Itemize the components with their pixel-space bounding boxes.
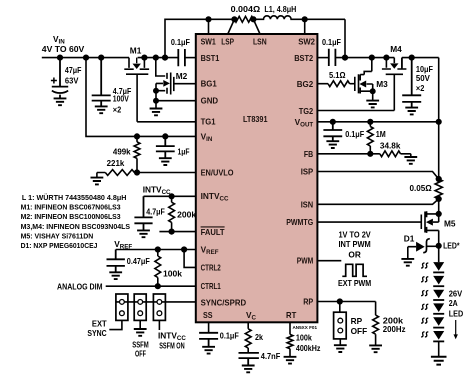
node 10uF junction dot (409, 55, 414, 60)
svg-text:50V: 50V (416, 73, 430, 83)
svg-text:0.1μF: 0.1μF (345, 129, 364, 139)
svg-text:M4: M4 (390, 44, 402, 54)
wire RP pin row (317, 301, 375, 303)
svg-text:LED*: LED* (443, 240, 460, 250)
node FB junction dot (368, 152, 373, 157)
capacitor C11 0.1uF VOUT (323, 122, 342, 141)
svg-text:OR: OR (348, 249, 360, 259)
node 200k top junction dot (169, 194, 174, 199)
ground for C2 (95, 106, 108, 113)
ground for SSFM OFF box (139, 320, 141, 329)
resistor R9 34.8k (380, 151, 411, 157)
resistor R6 100k 400kHz (287, 334, 293, 356)
wire RT pin stub (289, 322, 291, 334)
svg-text:BST1: BST1 (201, 53, 220, 63)
svg-text:D1: D1 (404, 234, 415, 244)
wire VIN column down to VIN pin row (86, 58, 196, 137)
IC U1 LT8391 body (196, 34, 318, 322)
node 0.05 bottom junction dot (436, 197, 441, 202)
node LSP junction dot (232, 17, 237, 22)
node 499k top junction dot (135, 134, 140, 139)
transistor M2 nmos bottom switch 1 (156, 58, 174, 109)
resistor R5 2k (245, 329, 251, 353)
svg-text:CTRL2: CTRL2 (201, 262, 221, 272)
wire PWMTG pin to M5 gate (317, 221, 421, 223)
svg-text:0.1μF: 0.1μF (322, 37, 341, 47)
svg-text:63V: 63V (65, 75, 79, 85)
ground for C11 (326, 141, 339, 148)
svg-text:SW2: SW2 (298, 37, 315, 47)
node VIN cap C1 junction dot (58, 55, 63, 60)
svg-text:0.004Ω: 0.004Ω (231, 4, 261, 14)
switch SW jumper EXT SYNC box (116, 294, 128, 320)
node M5 drain junction dot (436, 212, 441, 217)
wire VC pin stub (247, 322, 249, 329)
svg-text:LED: LED (449, 308, 464, 318)
node LSN junction dot (251, 17, 256, 22)
svg-text:0.47μF: 0.47μF (127, 256, 150, 266)
svg-text:LSN: LSN (253, 37, 267, 47)
node M1 drain junction dot (142, 55, 147, 60)
svg-text:RP: RP (351, 316, 363, 326)
svg-text:400kHz: 400kHz (296, 343, 321, 353)
svg-text:1M: 1M (376, 129, 386, 139)
svg-text:GND: GND (201, 96, 219, 106)
svg-text:0.1μF: 0.1μF (220, 331, 239, 341)
node M3 source junction dot (371, 89, 375, 93)
wire D1 cathode to LED node (427, 245, 439, 247)
node VOUT rail junction dot (436, 120, 441, 125)
capacitor C9 0.1uF BST2 (329, 49, 336, 66)
transistor M5 pmos LED dimming (421, 211, 438, 246)
svg-text:×2: ×2 (416, 83, 425, 93)
capacitor C1 47uF 63V electrolytic (52, 58, 68, 99)
wire LED string spine (438, 246, 440, 357)
svg-text:100V: 100V (113, 94, 129, 104)
capacitor C3 0.1uF BST1 (178, 49, 185, 66)
wire TG2 pin to M4 gate (317, 110, 394, 112)
capacitor C4 1uF (156, 136, 175, 158)
svg-text:RT: RT (286, 310, 296, 320)
svg-text:CTRL1: CTRL1 (201, 281, 221, 291)
svg-text:2k: 2k (255, 332, 263, 342)
svg-text:0.1μF: 0.1μF (171, 37, 190, 47)
arrow LED current direction (455, 320, 457, 335)
wire ISP pin row (317, 172, 438, 180)
wire SSFM ON lead (158, 320, 160, 330)
wire TG1 from M1 gate (137, 121, 196, 123)
ground for C1 (54, 98, 67, 105)
node SW2 junction dot (302, 17, 307, 22)
svg-text:M3,M4: INFINEON BSC093N04LS: M3,M4: INFINEON BSC093N04LS (21, 222, 131, 231)
svg-text:5.1Ω: 5.1Ω (329, 70, 346, 80)
LED D3 (433, 276, 444, 285)
svg-text:0.05Ω: 0.05Ω (410, 183, 433, 193)
svg-text:4.7nF: 4.7nF (261, 351, 281, 361)
ground for R11 (369, 345, 382, 352)
svg-text:M2: INFINEON BSC100N06LS3: M2: INFINEON BSC100N06LS3 (21, 212, 121, 221)
node EN divider junction dot (135, 170, 140, 175)
node 1uF top junction dot (163, 134, 168, 139)
resistor R10 0.05ohm LED sense (435, 179, 442, 199)
wire BST2 pin to cap (317, 57, 328, 59)
svg-text:BG1: BG1 (201, 79, 218, 89)
node 100k top junction dot (156, 247, 161, 252)
wire top rail from BST1 junction up and over to SW1 (165, 19, 209, 57)
svg-text:EN/UVLO: EN/UVLO (201, 167, 234, 177)
svg-text:TG1: TG1 (201, 117, 216, 127)
wire BST2 cap to M4 (335, 57, 394, 59)
svg-text:LT8391: LT8391 (243, 114, 268, 124)
node RP junction dot (338, 299, 343, 304)
svg-text:RP: RP (303, 297, 313, 307)
ground for R9 (404, 157, 417, 164)
ground for C6 (109, 272, 122, 279)
wire VIN input rail (42, 57, 129, 59)
resistor R4 100k CTRL (155, 250, 161, 287)
LED D4 (433, 290, 444, 299)
transistor M1 nmos top switch (124, 58, 149, 122)
svg-text:M3: M3 (376, 79, 388, 89)
node M2 body-source junction dot (154, 89, 158, 93)
LED light squiggles 3 (421, 291, 428, 296)
svg-text:2A: 2A (449, 298, 458, 308)
LED light squiggles 5 (421, 318, 428, 323)
node 0.05 top junction dot (436, 177, 441, 182)
ground for D1 (401, 259, 414, 266)
svg-text:47μF: 47μF (65, 65, 82, 75)
wire CTRL1 ANALOG DIM row (106, 285, 196, 287)
node 1M top junction dot (368, 120, 373, 125)
svg-text:221k: 221k (107, 158, 125, 168)
wire VOUT pin row (317, 121, 438, 123)
wire SW2 stub (304, 19, 306, 34)
svg-text:ANALOG DIM: ANALOG DIM (57, 281, 103, 291)
wire rail down to BST2 row (344, 19, 346, 57)
resistor RS 0.004ohm (234, 16, 253, 22)
node M2 source GND junction dot (154, 99, 158, 103)
capacitor C8 4.7nF (239, 353, 259, 366)
resistor R2 221k (97, 170, 134, 176)
svg-text:1μF: 1μF (178, 146, 190, 156)
wire M1 to M2 to BST1 junction (144, 57, 178, 59)
ground for C8 (242, 366, 255, 373)
ground for M2 source (150, 109, 163, 116)
capacitor C7 0.1uF SS (199, 333, 218, 347)
svg-text:ISP: ISP (301, 167, 314, 177)
ground for M3 (366, 101, 379, 108)
svg-text:AN5XX F01: AN5XX F01 (292, 325, 317, 330)
svg-text:L1, 4.8μH: L1, 4.8μH (264, 4, 296, 14)
svg-text:PWMTG: PWMTG (286, 217, 313, 227)
node M2 drain junction dot (154, 55, 159, 60)
resistor R1 499k (134, 136, 140, 172)
resistor R7 5.1ohm BG2 gate (317, 81, 354, 87)
svg-text:OFF: OFF (135, 349, 146, 359)
LED D5 (433, 303, 444, 312)
inductor L1 4.8uH (253, 16, 345, 19)
wire PWM pin stub (317, 260, 341, 262)
svg-text:FAULT: FAULT (201, 227, 225, 237)
wire BG1 pin to M2 gate (174, 83, 196, 85)
node VIN cap C2 junction dot (99, 55, 104, 60)
svg-text:M1: M1 (130, 45, 142, 55)
ground for R6 (284, 357, 297, 364)
transistor M3 nmos bottom switch 2 (355, 58, 373, 101)
resistor R3 200k FAULT pullup (169, 196, 175, 231)
svg-text:LSP: LSP (221, 37, 234, 47)
node VIN column junction dot (84, 55, 89, 60)
wire LSP kelvin tap (228, 19, 235, 34)
ground for C4 (159, 158, 172, 165)
wire FAULT pin row (159, 231, 195, 233)
svg-text:4V TO 60V: 4V TO 60V (42, 44, 85, 54)
node CTRL2 branch junction dot (182, 247, 187, 252)
node CTRL1 junction dot (156, 284, 161, 289)
svg-text:EXT PWM: EXT PWM (338, 278, 371, 288)
wire INTVCC pin row (144, 195, 196, 197)
wire BST1 cap to pin (185, 57, 196, 59)
wire CTRL2 branch (184, 250, 196, 268)
switch SW jumper RP OFF box (339, 302, 341, 313)
wire EN/UVLO pin (134, 172, 195, 174)
wire SYNC/SPRD row (116, 301, 196, 303)
node BST1 rail junction dot (163, 55, 168, 60)
svg-text:SYNC: SYNC (87, 328, 106, 338)
svg-text:SYNC/SPRD: SYNC/SPRD (201, 297, 247, 307)
LED light squiggles 6 (421, 332, 428, 337)
svg-text:PWM: PWM (297, 256, 314, 266)
svg-text:FB: FB (304, 149, 313, 159)
svg-text:4.7μF: 4.7μF (146, 206, 165, 216)
wire VREF pin row (116, 249, 196, 251)
switch SW jumper SSFM OFF box (134, 294, 146, 320)
transistor M4 pmos output disconnect (382, 58, 407, 111)
node SW1 junction dot (206, 17, 211, 22)
capacitor C10 10uF 50V x2 (402, 58, 421, 108)
resistor R8 1M feedback (367, 122, 373, 154)
switch SW jumper SSFM ON box (153, 294, 165, 320)
node M4 source junction dot (384, 55, 389, 60)
waveform glyph EXT PWM square wave (342, 264, 367, 276)
svg-text:100k: 100k (296, 333, 312, 343)
svg-text:1V TO 2V: 1V TO 2V (338, 229, 371, 239)
LED light squiggles 4 (421, 304, 428, 309)
svg-text:499k: 499k (113, 147, 131, 157)
LED light squiggles 2 (421, 277, 428, 282)
ground for LED string (431, 357, 447, 365)
wire rail to M5 drain (438, 199, 440, 222)
svg-text:M5: M5 (444, 219, 456, 229)
svg-text:200Hz: 200Hz (383, 324, 406, 334)
LED D6 (433, 317, 444, 326)
wire LSN kelvin tap (253, 19, 260, 34)
ground for C10 (405, 108, 418, 115)
svg-text:BG2: BG2 (297, 79, 314, 89)
wire rail SW1 to sense resistor (209, 18, 235, 20)
LED D7 (433, 331, 444, 340)
svg-text:SSFM ON: SSFM ON (159, 340, 185, 350)
node M3 drain junction dot (370, 55, 375, 60)
svg-text:INT PWM: INT PWM (338, 239, 370, 249)
ground for C7 (202, 347, 215, 354)
svg-text:100k: 100k (163, 268, 182, 278)
wire output rail down right side (438, 58, 440, 179)
resistor R11 200k 200Hz (373, 302, 379, 346)
wire EXT SYNC lead (109, 320, 122, 329)
svg-text:D1: NXP PMEG6010CEJ: D1: NXP PMEG6010CEJ (21, 241, 98, 250)
ground for R2 (96, 173, 98, 178)
svg-text:M5: VISHAY Si7611DN: M5: VISHAY Si7611DN (21, 231, 94, 240)
LED light squiggles 1 (421, 263, 428, 268)
svg-text:34.8k: 34.8k (380, 140, 401, 150)
ground for C5 (137, 230, 150, 237)
node BST2 rail junction dot (343, 55, 348, 60)
wire ISN pin row (317, 199, 438, 204)
wire SS pin stub (208, 322, 210, 332)
svg-text:BST2: BST2 (294, 53, 313, 63)
diode D1 schottky (408, 247, 416, 259)
capacitor C6 0.47uF VREF (107, 250, 125, 273)
svg-text:SS: SS (203, 310, 213, 320)
LED D2 (433, 262, 444, 271)
svg-text:SW1: SW1 (201, 37, 217, 47)
svg-text:×2: ×2 (113, 105, 122, 115)
svg-text:M2: M2 (176, 71, 188, 81)
ground for RP box (339, 339, 341, 345)
diode D1 schottky cathode bar (423, 239, 430, 253)
wire SW1 stub (208, 19, 210, 34)
svg-text:L 1: WÜRTH 7443550480 4.8μH: L 1: WÜRTH 7443550480 4.8μH (22, 193, 127, 202)
node FAULT junction dot (169, 229, 174, 234)
capacitor C2 4.7uF 100V x2 (92, 58, 111, 107)
wire M4 drain to output node (402, 58, 439, 69)
svg-text:TG2: TG2 (299, 106, 314, 116)
svg-text:ISN: ISN (301, 199, 314, 209)
svg-text:OFF: OFF (351, 326, 368, 336)
wire FB pin row (317, 153, 380, 155)
svg-text:200k: 200k (177, 210, 196, 220)
capacitor C5 4.7uF INTVCC (134, 196, 152, 230)
wire GND pin to M2 source (156, 100, 196, 102)
node VOUT 0.1uF junction dot (331, 120, 336, 125)
svg-text:M1: INFINEON BSC067N06LS3: M1: INFINEON BSC067N06LS3 (21, 203, 121, 212)
node LED* junction dot (436, 244, 441, 249)
